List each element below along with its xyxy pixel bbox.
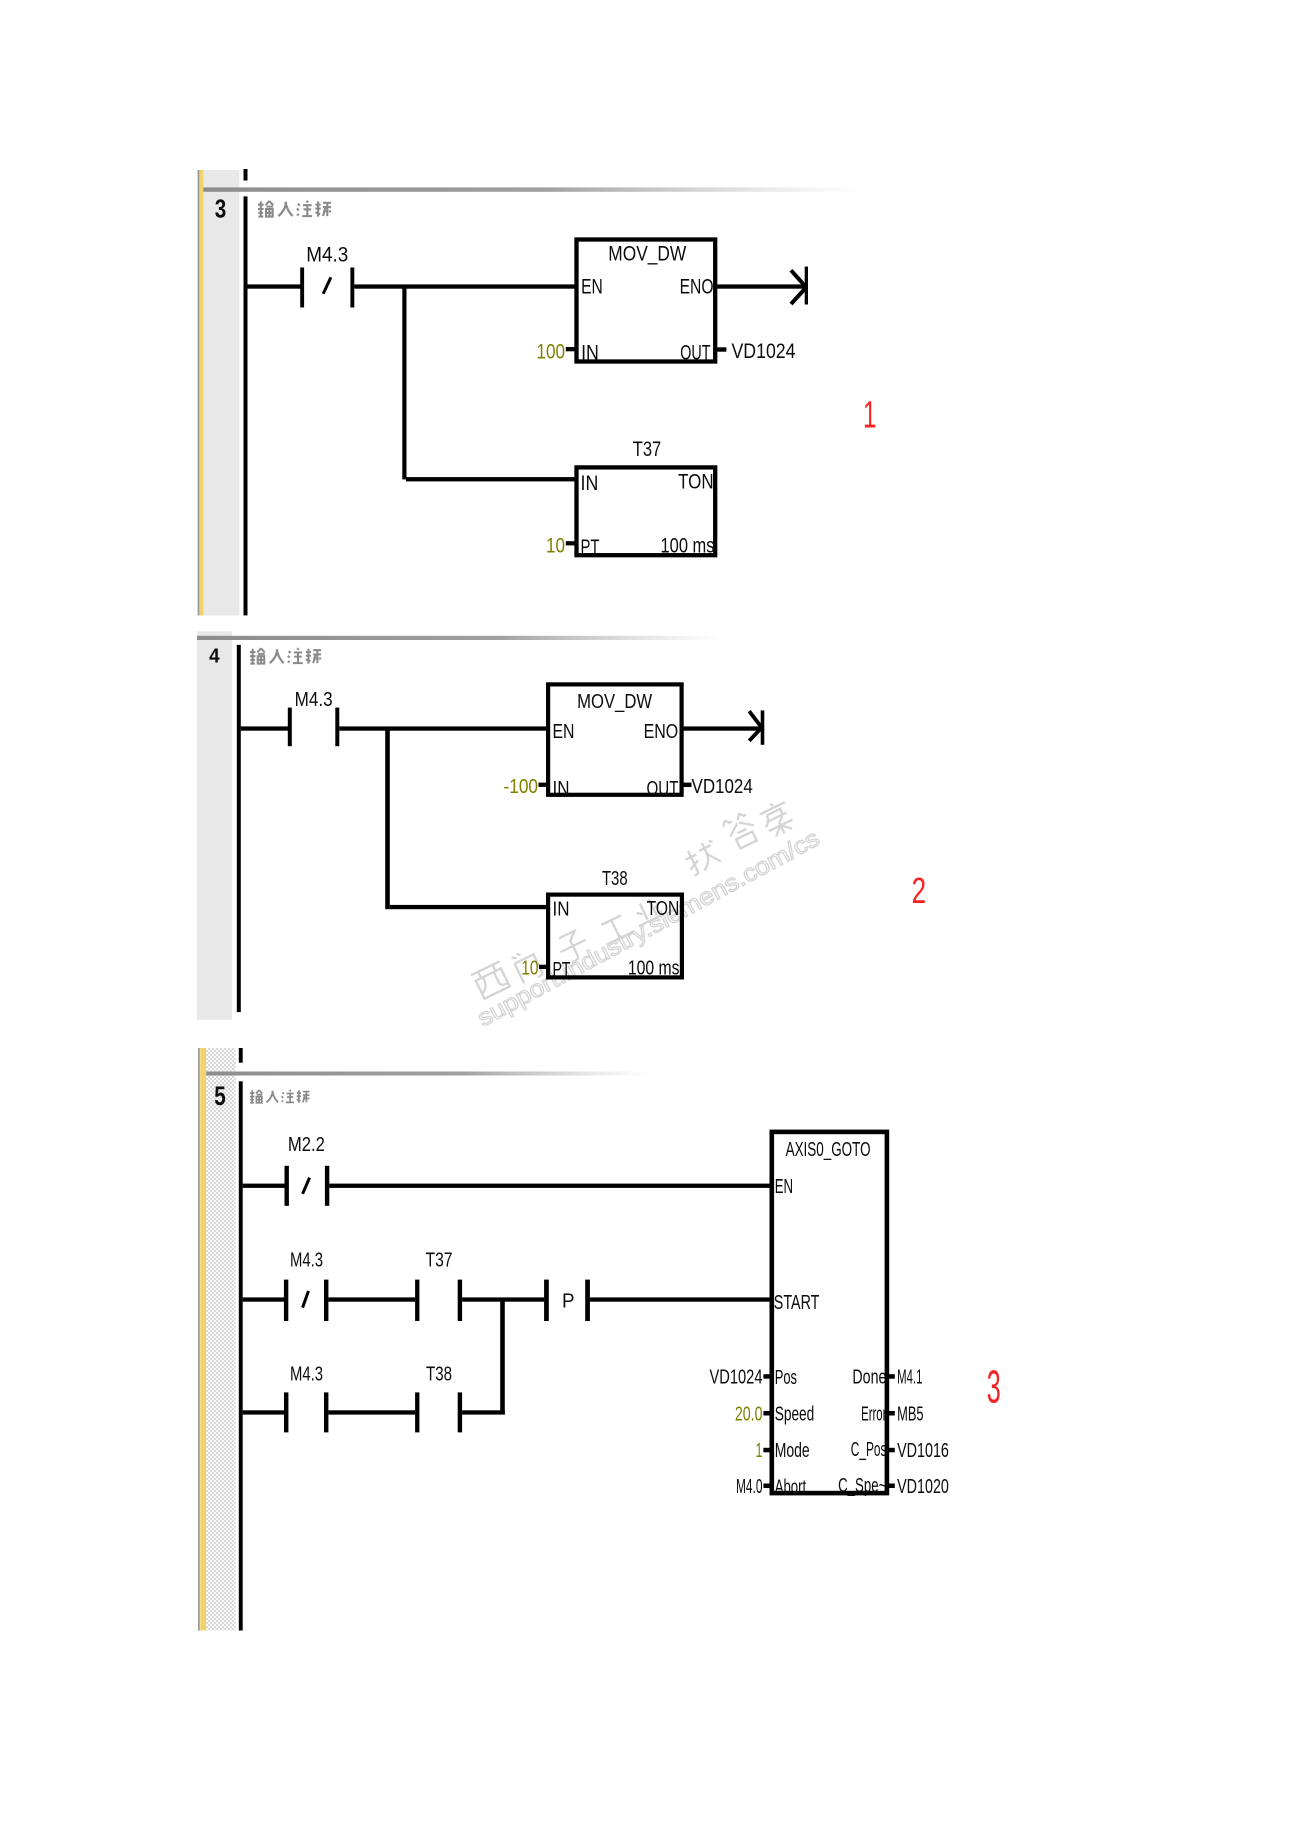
watermark char 西 <box>471 961 512 999</box>
svg-text:OUT: OUT <box>680 342 710 365</box>
network 5 separator line <box>206 1072 671 1076</box>
rung2 wire M4.3 to T37 <box>328 1297 415 1301</box>
network 4 margin strip <box>197 631 232 1020</box>
watermark char 子 <box>555 928 592 965</box>
svg-text:M4.1: M4.1 <box>897 1367 922 1389</box>
tick OUT to VD1024 <box>717 347 726 351</box>
svg-text:100 ms: 100 ms <box>661 535 715 558</box>
network 5 margin yellow bar <box>200 1048 206 1631</box>
contact M4.3 rung2 (NC) left bar <box>284 1280 288 1321</box>
network 4 left power rail <box>237 645 241 1012</box>
svg-text:EN: EN <box>553 721 575 743</box>
svg-text:C_Spe~: C_Spe~ <box>838 1475 886 1497</box>
arrow head lower diagonal network 4 <box>749 728 761 741</box>
svg-text:EN: EN <box>581 276 603 299</box>
svg-text:OUT: OUT <box>647 778 679 800</box>
svg-text:C_Pos: C_Pos <box>851 1439 887 1461</box>
svg-text:ENO: ENO <box>644 721 679 743</box>
svg-text:MOV_DW: MOV_DW <box>577 691 652 713</box>
tick 10 to PT <box>566 541 575 545</box>
contact M4.3 rung2 (NC) slash <box>303 1291 309 1308</box>
rung2 wire T37 to P <box>462 1297 544 1301</box>
svg-text:M4.3: M4.3 <box>306 244 348 267</box>
watermark char 案 <box>758 798 798 840</box>
wire contact to MOV_DW EN <box>339 726 546 730</box>
svg-text:1: 1 <box>756 1440 763 1462</box>
svg-text:VD1016: VD1016 <box>897 1440 949 1462</box>
svg-text:AXIS0_GOTO: AXIS0_GOTO <box>786 1139 871 1161</box>
contact M2.2 (NC) right bar <box>325 1166 329 1206</box>
rung1 wire M2.2 to EN <box>329 1184 769 1188</box>
wire ENO to arrow <box>717 284 805 288</box>
svg-text:Speed: Speed <box>775 1404 815 1426</box>
contact M4.3 (NC) left bar <box>300 268 304 308</box>
contact M4.3 rung3 (NO) right bar <box>324 1392 328 1432</box>
box AXIS0_GOTO <box>772 1132 887 1493</box>
watermark char 答 <box>721 810 760 851</box>
contact M4.3 (NC) slash <box>323 277 331 294</box>
tick Done <box>887 1374 895 1379</box>
rung1 wire rail to M2.2 <box>243 1184 285 1188</box>
tick Error <box>887 1411 895 1416</box>
rung2 wire P to START <box>590 1297 770 1301</box>
svg-text:M4.3: M4.3 <box>290 1250 323 1272</box>
svg-text:-100: -100 <box>504 776 539 798</box>
svg-text:M4.3: M4.3 <box>290 1364 323 1386</box>
svg-text:T38: T38 <box>426 1364 452 1386</box>
svg-text:P: P <box>562 1290 575 1312</box>
arrow head lower diagonal <box>791 288 806 304</box>
svg-text:Pos: Pos <box>775 1367 797 1389</box>
contact T37 right bar <box>458 1280 462 1321</box>
watermark char 门 <box>511 947 543 984</box>
network 3 margin yellow bar <box>200 170 203 615</box>
svg-text:Error: Error <box>861 1403 886 1425</box>
network 5 left power rail <box>239 1081 243 1630</box>
contact M4.3 (NC) right bar <box>350 268 354 308</box>
svg-text:Mode: Mode <box>775 1440 810 1462</box>
svg-text:VD1020: VD1020 <box>897 1476 949 1498</box>
rung3 wire M4.3 to T38 <box>328 1410 415 1414</box>
svg-text:VD1024: VD1024 <box>732 340 796 363</box>
watermark char 业 <box>630 894 668 926</box>
wire ENO to arrow network 4 <box>682 726 761 730</box>
contact M4.3 (NO) right bar <box>335 708 339 747</box>
network 3 comment 输入注释 <box>258 201 331 217</box>
svg-text:100: 100 <box>537 340 566 363</box>
svg-text:100 ms: 100 ms <box>628 958 680 980</box>
svg-text:3: 3 <box>987 1360 1001 1412</box>
box T37 TON network 3 <box>577 467 716 555</box>
svg-text:4: 4 <box>209 645 220 668</box>
svg-text:ENO: ENO <box>680 276 714 299</box>
svg-text:5: 5 <box>214 1081 226 1111</box>
contact T37 left bar <box>415 1280 419 1321</box>
svg-text:M4.0: M4.0 <box>736 1476 763 1498</box>
wire rail to contact M4.3 <box>247 284 301 288</box>
network 4 comment 输入注释 <box>250 648 321 663</box>
arrow head upper diagonal <box>791 270 806 287</box>
tick C_Pos <box>887 1448 895 1453</box>
contact M4.3 rung2 (NC) right bar <box>324 1280 328 1321</box>
branch wire to T37 IN <box>406 477 575 481</box>
network 5 rail stub above separator <box>239 1048 243 1063</box>
svg-text:M2.2: M2.2 <box>288 1134 325 1156</box>
svg-text:T37: T37 <box>426 1250 453 1272</box>
wire contact to MOV_DW EN <box>354 284 574 288</box>
rung2 wire rail to M4.3 <box>243 1297 284 1301</box>
branch wire to T38 IN <box>390 905 547 909</box>
box T38 TON network 4 <box>548 895 682 978</box>
branch vertical wire <box>402 286 406 479</box>
box MOV_DW network 3 <box>577 240 716 362</box>
rung3 wire T38 to branch <box>462 1410 505 1414</box>
network 5 margin strip base <box>197 1048 236 1631</box>
contact M2.2 (NC) left bar <box>285 1166 289 1206</box>
svg-text:IN: IN <box>581 342 599 365</box>
svg-text:IN: IN <box>553 778 570 800</box>
svg-text:MOV_DW: MOV_DW <box>608 243 686 266</box>
wire rail to contact M4.3 <box>241 726 288 730</box>
network 3 separator line <box>203 187 893 191</box>
svg-text:START: START <box>774 1292 820 1314</box>
network 5 margin gray edge line <box>198 1048 200 1631</box>
tick Mode <box>763 1448 771 1453</box>
svg-text:20.0: 20.0 <box>735 1403 763 1425</box>
contact M4.3 (NO) left bar <box>288 708 292 747</box>
svg-text:T38: T38 <box>602 868 628 890</box>
svg-text:EN: EN <box>775 1176 793 1198</box>
tick 100 to IN <box>566 347 575 351</box>
branch vertical wire network 4 <box>385 728 390 909</box>
open branch arrow bar <box>805 267 808 305</box>
contact T38 right bar <box>458 1392 462 1432</box>
network 3 margin strip <box>197 170 239 615</box>
svg-text:MB5: MB5 <box>897 1403 924 1425</box>
watermark char 找 <box>682 839 722 877</box>
svg-text:VD1024: VD1024 <box>692 776 753 798</box>
tick 10 to PT network 4 <box>539 965 548 969</box>
tick Abort <box>763 1484 771 1489</box>
network 4 separator line <box>197 636 748 640</box>
svg-text:VD1024: VD1024 <box>710 1367 763 1389</box>
network 5 comment 输入注释 <box>250 1090 310 1103</box>
svg-text:Abort: Abort <box>775 1476 807 1498</box>
contact T38 left bar <box>415 1392 419 1432</box>
svg-text:2: 2 <box>912 870 927 911</box>
contact P right bar <box>585 1280 590 1321</box>
svg-text:PT: PT <box>581 536 600 559</box>
svg-text:1: 1 <box>863 394 877 436</box>
svg-text:M4.3: M4.3 <box>295 689 333 711</box>
tick C_Spe <box>887 1484 895 1489</box>
open branch arrow bar network 4 <box>761 710 765 744</box>
tick Pos <box>763 1374 771 1379</box>
network 3 left power rail <box>244 196 248 615</box>
contact P left bar <box>544 1280 549 1321</box>
tick Speed <box>763 1411 771 1416</box>
branch vertical wire rung2-rung3 <box>500 1299 505 1415</box>
svg-text:TON: TON <box>678 471 714 494</box>
tick OUT to VD1024 network 4 <box>682 783 692 787</box>
tick -100 to IN <box>539 783 549 787</box>
svg-text:IN: IN <box>581 472 599 495</box>
box MOV_DW network 4 <box>548 684 682 794</box>
watermark char 工 <box>598 914 634 945</box>
network 5 margin checker pattern <box>206 1048 235 1631</box>
svg-text:3: 3 <box>215 194 227 224</box>
svg-text:10: 10 <box>546 535 565 558</box>
contact M2.2 (NC) slash <box>303 1178 310 1194</box>
network 3 margin gray edge line <box>198 170 200 615</box>
rung3 wire rail to M4.3 <box>243 1410 284 1414</box>
svg-text:T37: T37 <box>633 438 662 461</box>
arrow head upper diagonal network 4 <box>749 711 761 727</box>
network 3 rail stub above separator <box>244 169 248 181</box>
svg-text:IN: IN <box>553 899 570 921</box>
contact M4.3 rung3 (NO) left bar <box>284 1392 288 1432</box>
svg-text:Done: Done <box>852 1367 886 1389</box>
